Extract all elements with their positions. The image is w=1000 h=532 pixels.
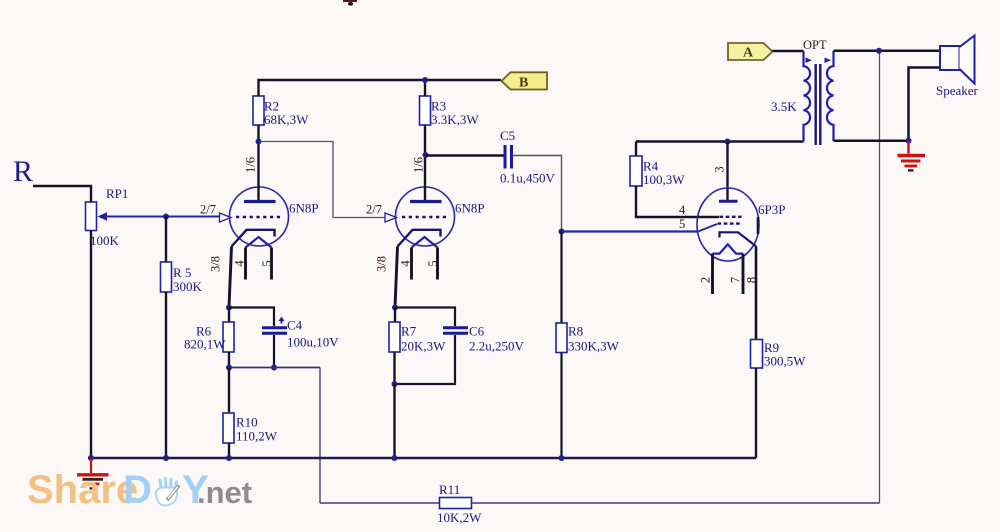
junction node R8 top [559, 229, 565, 235]
wire R3 top to rail [424, 80, 426, 96]
wire node to ground rail [393, 384, 395, 458]
wire R2 bottom to tube1 plate [257, 125, 259, 200]
RP1 wiper arrow [98, 212, 108, 220]
wire feedback tap down to R11 [319, 368, 321, 504]
wire tube2 cathode to C6 [395, 308, 455, 327]
svg-text:C6: C6 [469, 324, 485, 339]
svg-text:Speaker: Speaker [936, 83, 979, 98]
svg-text:1/6: 1/6 [244, 157, 258, 173]
svg-text:330K,3W: 330K,3W [568, 339, 620, 354]
svg-text:0.1u,450V: 0.1u,450V [500, 171, 556, 186]
wire B+ top rail [259, 80, 502, 96]
6P3P cathode [720, 232, 757, 246]
wire R3 bottom to tube2 plate [424, 125, 426, 200]
tube2 anode bar [410, 200, 442, 203]
svg-text:R: R [13, 155, 33, 188]
junction node rail R7 [392, 455, 398, 461]
junction node 6P3P plate [725, 139, 731, 145]
svg-text:300,5W: 300,5W [764, 354, 806, 369]
svg-text:6N8P: 6N8P [289, 201, 319, 216]
svg-text:100u,10V: 100u,10V [287, 335, 339, 350]
wire secondary bottom to ground [834, 139, 909, 142]
wire flag A to transformer [773, 50, 804, 53]
junction node feedback tap [876, 48, 882, 54]
C4 polarity plus arrow [279, 317, 285, 324]
wire R4 bottom to pin4 [636, 186, 719, 217]
wire junction to R5 [165, 217, 167, 263]
junction node rail R10 [226, 455, 232, 461]
tube1 cathode [232, 230, 275, 247]
resistor R5 [161, 262, 172, 292]
tube2 pin 5 lead [436, 248, 439, 280]
junction node C4 bottom [271, 365, 277, 371]
feedback wire vertical [879, 51, 881, 503]
wire cathode node to feedback tap [229, 367, 320, 369]
6P3P beam plate bar [757, 217, 760, 234]
svg-text:.net: .net [197, 475, 252, 510]
junction node tube2 cathode [392, 305, 398, 311]
wire pin5 diagonal to grid [698, 224, 717, 232]
transformer OPT primary winding [804, 51, 811, 142]
top edge cut mark [343, 0, 357, 6]
flag B [502, 72, 548, 90]
svg-text:2: 2 [699, 277, 713, 283]
tube2 pin 3/8 lead [395, 247, 398, 308]
wire node to 6P3P pin5 [562, 230, 699, 232]
wire tube2 plate junction to C5 [426, 154, 504, 156]
junction node tube1 cathode [226, 305, 232, 311]
wire R7 bottom [393, 352, 395, 384]
svg-text:68K,3W: 68K,3W [264, 112, 309, 127]
svg-text:2/7: 2/7 [200, 203, 216, 217]
junction node R7 bottom [392, 381, 398, 387]
svg-text:3.3K,3W: 3.3K,3W [431, 112, 479, 127]
wire speaker bottom return [909, 68, 941, 141]
svg-text:Share: Share [27, 468, 138, 512]
junction node R6 bottom [226, 365, 232, 371]
wire C4 bottom [273, 335, 275, 368]
svg-text:RP1: RP1 [106, 186, 128, 201]
resistor R6 [223, 322, 234, 352]
svg-text:R7: R7 [401, 324, 417, 339]
resistor R8 [556, 323, 567, 353]
tube2 grid dashed line [402, 216, 447, 219]
junction node rail R5 [163, 455, 169, 461]
6P3P pin 7 lead [742, 254, 745, 294]
watermark ShareDIY.net [27, 468, 252, 512]
svg-text:6N8P: 6N8P [455, 201, 485, 216]
6P3P pin 8 lead to R9 [755, 246, 758, 339]
svg-text:100,3W: 100,3W [643, 172, 685, 187]
triode U1 6N8P envelope [230, 187, 289, 246]
polarity mark secondary [825, 58, 832, 64]
wire coupling tube1 plate to tube2 grid [260, 142, 386, 218]
6P3P pin 2 lead [711, 254, 714, 294]
wire node down to R8 [560, 232, 562, 324]
wire R10 to ground rail [228, 443, 230, 458]
svg-text:3: 3 [713, 166, 727, 172]
wire R11 right to feedback [472, 502, 880, 504]
svg-text:A: A [743, 46, 754, 61]
svg-text:5: 5 [679, 217, 685, 231]
svg-text:3.5K: 3.5K [771, 99, 797, 114]
speaker horn [960, 36, 975, 84]
wire input R to RP1 [33, 186, 91, 202]
resistor R11 [440, 498, 472, 509]
wire R7 top [394, 308, 396, 323]
svg-text:1/6: 1/6 [412, 157, 426, 173]
wire node to R10 [228, 368, 230, 414]
junction node rail RP1 [88, 455, 94, 461]
junction node wiper/R5 [163, 214, 169, 220]
svg-text:D: D [123, 468, 152, 512]
svg-text:6P3P: 6P3P [758, 202, 785, 217]
junction node R3 on rail [422, 77, 428, 83]
6P3P heater [713, 244, 744, 253]
svg-text:100K: 100K [90, 233, 120, 248]
tube1 pin 4 lead [244, 248, 247, 280]
svg-text:C4: C4 [287, 318, 303, 333]
ground symbol right [898, 141, 926, 171]
wire R11 left [320, 502, 440, 504]
tube2 cathode [398, 230, 441, 247]
wire C6 bottom loop [395, 335, 455, 384]
transformer OPT secondary winding [827, 51, 834, 141]
wire RP1 bottom to ground rail [90, 231, 92, 459]
tube2 grid input arrow [385, 213, 397, 222]
wire 6P3P plate lead [726, 142, 728, 201]
svg-text:C5: C5 [500, 128, 515, 143]
wire R5 to ground rail [165, 292, 167, 458]
6P3P grid1 dashes [720, 216, 742, 218]
svg-text:2/7: 2/7 [366, 203, 382, 217]
flag A [728, 43, 773, 61]
tube2 heater [412, 237, 438, 248]
capacitor C5 [505, 145, 512, 169]
svg-text:4: 4 [679, 203, 686, 217]
polarity mark primary [806, 58, 813, 64]
svg-text:5: 5 [426, 260, 440, 266]
transformer core [816, 64, 821, 145]
resistor R10 [223, 413, 234, 443]
tube1 grid dashed line [236, 216, 281, 219]
watermark hand icon [156, 479, 179, 506]
wire R6 bottom [228, 352, 230, 368]
speaker box [940, 46, 960, 70]
resistor R4 [630, 156, 642, 186]
capacitor C6 [443, 328, 468, 333]
wire R9 to ground rail [755, 368, 757, 458]
tube1 pin 3/8 lead [229, 247, 232, 308]
wire plate rail 6P3P [636, 140, 804, 142]
svg-text:3/8: 3/8 [375, 256, 389, 272]
svg-text:820,1W: 820,1W [184, 337, 226, 352]
tube2 pin 4 lead [410, 248, 413, 280]
tube1 pin 5 lead [270, 248, 273, 280]
svg-text:4: 4 [399, 260, 413, 267]
svg-text:10K,2W: 10K,2W [437, 510, 482, 525]
svg-text:R10: R10 [236, 415, 258, 430]
wire secondary top to speaker [834, 50, 941, 53]
potentiometer RP1 [86, 202, 97, 231]
wire R4 top [635, 142, 637, 157]
wire tube1 cathode to C4 [229, 308, 274, 327]
wire R8 to ground rail [560, 353, 562, 459]
svg-text:R8: R8 [568, 324, 583, 339]
ground rail bottom [88, 457, 756, 459]
pentode U3 6P3P envelope [697, 188, 759, 261]
svg-text:7: 7 [729, 277, 743, 283]
resistor R7 [389, 322, 400, 352]
junction node secondary ground [906, 138, 912, 144]
resistor R3 [420, 96, 431, 125]
svg-text:2.2u,250V: 2.2u,250V [469, 339, 525, 354]
tube1 anode bar [244, 200, 276, 203]
6P3P anode bar [719, 200, 738, 203]
capacitor C4 electrolytic [262, 328, 287, 333]
svg-text:B: B [519, 76, 528, 91]
svg-text:OPT: OPT [803, 38, 827, 52]
svg-text:4: 4 [233, 260, 247, 267]
svg-text:110,2W: 110,2W [236, 429, 278, 444]
6P3P grid2 dashes [718, 222, 742, 224]
svg-text:3/8: 3/8 [209, 256, 223, 272]
junction node tube1 plate [256, 139, 262, 145]
svg-text:8: 8 [745, 277, 759, 283]
tube1 heater [246, 237, 272, 248]
svg-text:R11: R11 [439, 482, 460, 497]
ground symbol left [77, 458, 109, 488]
svg-text:R 5: R 5 [173, 265, 191, 280]
wire C5 to R8 node [513, 156, 562, 232]
svg-text:5: 5 [260, 260, 274, 266]
tube1 grid input arrow [220, 213, 232, 222]
wire RP1 wiper to tube1 grid [107, 216, 220, 218]
triode U2 6N8P envelope [396, 187, 455, 246]
resistor R2 [253, 96, 264, 125]
junction node tube2 plate [423, 152, 429, 158]
resistor R9 [751, 340, 763, 369]
wire junction to R6 [228, 308, 230, 323]
svg-text:300K: 300K [173, 279, 203, 294]
svg-text:20K,3W: 20K,3W [401, 339, 446, 354]
junction node rail R8 [559, 455, 565, 461]
